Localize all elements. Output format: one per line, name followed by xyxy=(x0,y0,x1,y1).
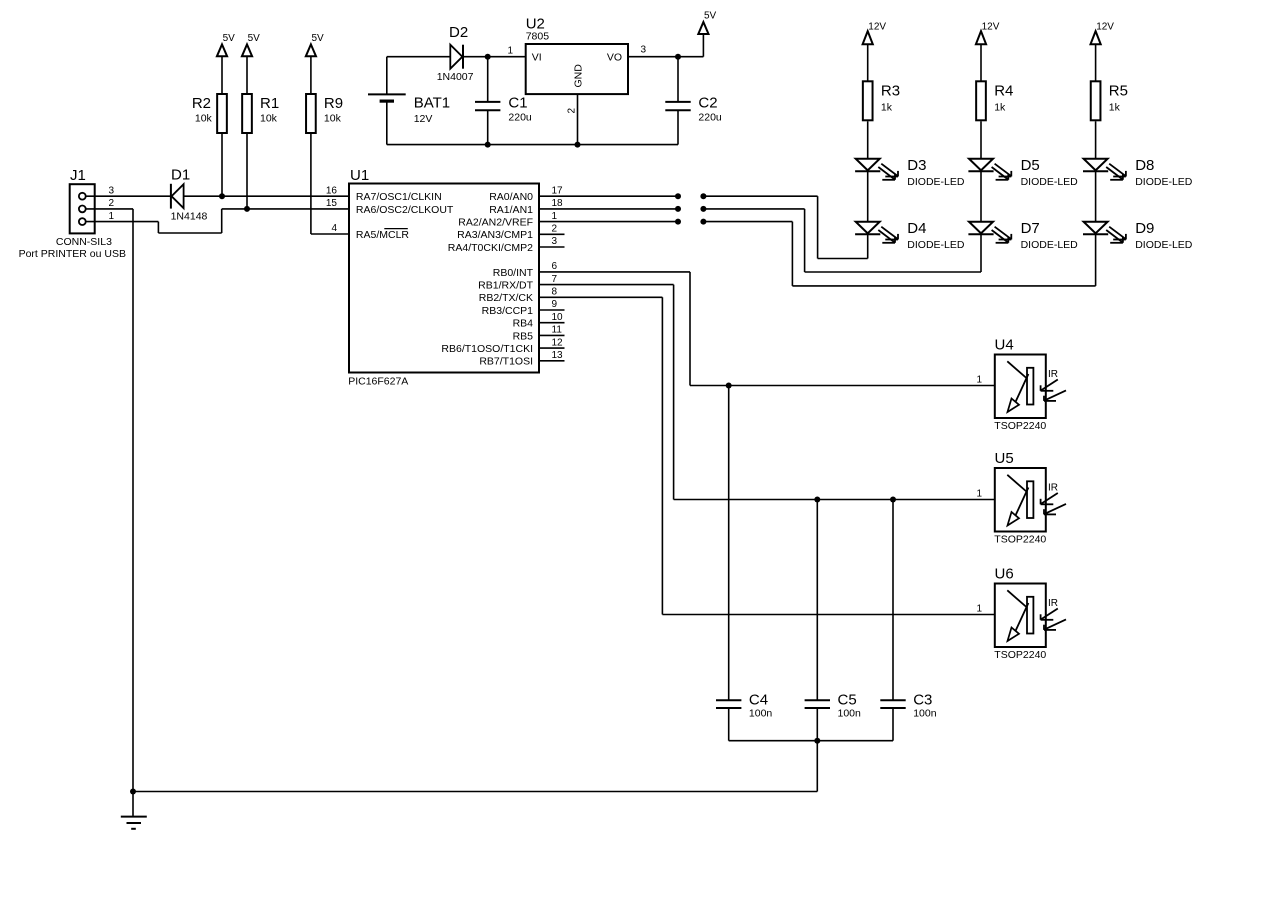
svg-text:TSOP2240: TSOP2240 xyxy=(994,420,1046,432)
svg-text:RA3/AN3/CMP1: RA3/AN3/CMP1 xyxy=(457,229,533,241)
svg-text:C1: C1 xyxy=(508,94,527,111)
power arrow 5V at x=310.9 xyxy=(306,44,316,56)
svg-text:2: 2 xyxy=(108,198,114,209)
capacitor C3 bottom lead xyxy=(892,708,894,741)
svg-text:RB5: RB5 xyxy=(513,330,534,342)
svg-text:DIODE-LED: DIODE-LED xyxy=(1021,176,1079,188)
svg-text:5V: 5V xyxy=(312,33,325,44)
capacitor C1 top lead xyxy=(487,57,489,102)
svg-text:RA1/AN1: RA1/AN1 xyxy=(489,204,533,216)
svg-text:1k: 1k xyxy=(1109,101,1121,113)
junction node C3 top xyxy=(890,497,896,503)
svg-text:R2: R2 xyxy=(192,95,211,112)
ground symbol stem xyxy=(132,792,134,816)
svg-text:10k: 10k xyxy=(195,112,213,124)
svg-text:RB4: RB4 xyxy=(513,318,534,330)
svg-text:3: 3 xyxy=(641,45,647,56)
wire 5V arrow to R1 xyxy=(246,56,248,94)
svg-text:RA6/OSC2/CLKOUT: RA6/OSC2/CLKOUT xyxy=(356,204,454,216)
svg-text:12V: 12V xyxy=(868,22,886,33)
svg-text:RB3/CCP1: RB3/CCP1 xyxy=(482,305,534,317)
U1 unconnected pin stub 10 xyxy=(539,322,565,324)
svg-text:12: 12 xyxy=(552,337,564,348)
wire J1 pin3 through diode D1 to U1 pin 16 xyxy=(86,195,349,197)
svg-text:100n: 100n xyxy=(838,708,862,720)
svg-text:100n: 100n xyxy=(913,708,937,720)
svg-text:D7: D7 xyxy=(1021,220,1040,237)
svg-text:16: 16 xyxy=(326,185,338,196)
svg-text:DIODE-LED: DIODE-LED xyxy=(1135,176,1193,188)
wire pin 7 down xyxy=(673,285,675,500)
wire LED net B to column D5/D7 xyxy=(805,271,981,273)
svg-text:DIODE-LED: DIODE-LED xyxy=(1021,239,1079,251)
wire LED net A to column D3/D4 xyxy=(818,258,868,260)
svg-text:1k: 1k xyxy=(881,101,893,113)
wire R1 to wire15 xyxy=(246,133,248,209)
wire U2 GND pin down xyxy=(577,94,579,145)
capacitor C2 bottom lead xyxy=(677,110,679,144)
wire battery minus down xyxy=(386,101,388,145)
capacitor C1 plates xyxy=(475,101,500,103)
svg-text:12V: 12V xyxy=(414,113,433,125)
svg-text:1N4148: 1N4148 xyxy=(171,211,208,223)
svg-text:DIODE-LED: DIODE-LED xyxy=(907,239,965,251)
svg-text:RA7/OSC1/CLKIN: RA7/OSC1/CLKIN xyxy=(356,191,442,203)
svg-text:U4: U4 xyxy=(995,336,1014,353)
svg-text:U1: U1 xyxy=(350,167,369,184)
svg-text:2: 2 xyxy=(552,224,558,235)
U4 incoming IR arrows xyxy=(1041,380,1058,391)
svg-text:DIODE-LED: DIODE-LED xyxy=(1135,239,1193,251)
svg-text:4: 4 xyxy=(331,223,337,234)
wire pin 8 down xyxy=(661,297,663,614)
power arrow 12V at x=981.0 xyxy=(976,31,986,44)
capacitor bottom rail xyxy=(729,740,893,742)
svg-text:RB0/INT: RB0/INT xyxy=(493,267,534,279)
svg-text:5V: 5V xyxy=(223,33,236,44)
svg-text:100n: 100n xyxy=(749,708,773,720)
wire D3 to D4 xyxy=(867,171,869,234)
capacitor C3 top lead xyxy=(892,500,894,701)
LED D3 xyxy=(856,159,880,171)
junction node R2/wire16 xyxy=(219,193,225,199)
junction node C2 top xyxy=(675,54,681,60)
wire rail down xyxy=(816,741,818,792)
resistor R3 body xyxy=(863,81,873,120)
junction node C1 bottom xyxy=(485,142,491,148)
svg-text:10: 10 xyxy=(552,312,564,323)
wire LED net B down xyxy=(804,209,806,272)
wire R4 to D5 xyxy=(980,121,982,171)
wire U1 pin 7 right xyxy=(539,284,674,286)
svg-text:RA0/AN0: RA0/AN0 xyxy=(489,191,533,203)
ground symbol bars xyxy=(121,816,147,818)
wire LED net A down xyxy=(817,196,819,258)
node start LED net B xyxy=(700,206,706,212)
svg-text:1: 1 xyxy=(976,375,982,386)
wire LED net B horizontal xyxy=(703,208,804,210)
svg-text:9: 9 xyxy=(552,299,558,310)
U5 internal detector symbol xyxy=(1007,475,1027,492)
resistor R4 body xyxy=(976,81,986,120)
U5 incoming IR arrows xyxy=(1041,493,1058,504)
svg-text:R5: R5 xyxy=(1109,82,1128,99)
svg-text:220u: 220u xyxy=(508,112,532,124)
svg-text:DIODE-LED: DIODE-LED xyxy=(907,176,965,188)
wire 5V arrow to R9 xyxy=(310,56,312,94)
svg-text:R3: R3 xyxy=(881,82,900,99)
wire J1 pin1 right xyxy=(86,221,159,223)
regulator U2 box xyxy=(526,44,628,94)
svg-text:7805: 7805 xyxy=(526,30,550,42)
svg-text:Port PRINTER ou USB: Port PRINTER ou USB xyxy=(19,248,126,260)
resistor R1 body xyxy=(242,94,252,133)
wire to U4 input xyxy=(690,385,995,387)
wire 12V to R3 xyxy=(867,44,869,82)
wire to U6 input xyxy=(662,614,994,616)
ground return wire xyxy=(133,791,817,793)
wire D7 cathode down xyxy=(980,234,982,272)
IR receiver U4 TSOP2240 xyxy=(995,355,1046,419)
wire J1 pin2 right xyxy=(86,208,133,210)
power arrow 5V at x=703.4 xyxy=(698,22,708,34)
diode D2 cathode bar xyxy=(462,45,464,69)
J1 pin circle 3 xyxy=(79,193,86,200)
wire pin 6 down xyxy=(689,272,691,386)
svg-text:D5: D5 xyxy=(1021,157,1040,174)
power arrow 5V at x=222.0 xyxy=(217,44,227,56)
svg-text:R4: R4 xyxy=(994,82,1013,99)
wire D4 cathode down xyxy=(867,234,869,258)
capacitor C4 bottom lead xyxy=(728,708,730,741)
svg-text:3: 3 xyxy=(552,236,558,247)
svg-text:IR: IR xyxy=(1048,369,1058,380)
IR receiver U5 TSOP2240 xyxy=(995,468,1046,532)
connector J1 CONN-SIL3 body xyxy=(70,184,95,233)
wire J1 pin2 down to ground rail xyxy=(132,209,134,792)
U4 internal detector symbol xyxy=(1007,361,1027,378)
wire 5V arrow to R2 xyxy=(221,56,223,94)
svg-text:220u: 220u xyxy=(698,112,722,124)
svg-text:R1: R1 xyxy=(260,95,279,112)
svg-text:D3: D3 xyxy=(907,157,926,174)
wire U1 pin 18 to node xyxy=(539,208,678,210)
svg-text:5V: 5V xyxy=(704,11,717,22)
wire D8 to D9 xyxy=(1095,171,1097,234)
svg-text:U6: U6 xyxy=(995,565,1014,582)
wire LED net A horizontal xyxy=(703,195,817,197)
svg-text:1: 1 xyxy=(552,211,558,222)
resistor R9 body xyxy=(306,94,316,133)
svg-text:10k: 10k xyxy=(260,112,278,124)
wire up to 5V arrow xyxy=(702,34,704,57)
node end pin17 xyxy=(675,193,681,199)
svg-text:VI: VI xyxy=(532,51,542,63)
wire 12V to R4 xyxy=(980,44,982,82)
node end pin18 xyxy=(675,206,681,212)
U1 unconnected pin stub 11 xyxy=(539,334,565,336)
J1 pin circle 2 xyxy=(79,206,86,213)
junction node U2 GND bottom xyxy=(575,142,581,148)
U6 incoming IR arrows xyxy=(1041,609,1058,620)
wire R3 to D3 xyxy=(867,121,869,171)
svg-text:IR: IR xyxy=(1048,483,1058,494)
wire U2 VO right xyxy=(628,56,703,58)
battery BAT1 short plate xyxy=(380,99,394,102)
wire J1 pin1 step bottom xyxy=(158,232,221,234)
svg-text:RB7/T1OSI: RB7/T1OSI xyxy=(479,356,533,368)
svg-text:RA5/MCLR: RA5/MCLR xyxy=(356,229,410,241)
svg-text:11: 11 xyxy=(552,325,563,336)
wire D9 cathode down xyxy=(1095,234,1097,286)
wire battery through diode D2 to U2 VI xyxy=(387,56,526,58)
capacitor C3 plates xyxy=(880,699,905,701)
svg-text:IR: IR xyxy=(1048,598,1058,609)
diode D1 cathode bar xyxy=(170,184,172,209)
svg-text:RA2/AN2/VREF: RA2/AN2/VREF xyxy=(458,217,533,229)
junction node R1/wire15 xyxy=(244,206,250,212)
svg-text:1: 1 xyxy=(976,604,982,615)
resistor R2 body xyxy=(217,94,227,133)
svg-text:15: 15 xyxy=(326,198,338,209)
ground rail of regulator section xyxy=(387,144,678,146)
svg-text:D2: D2 xyxy=(449,24,468,41)
svg-text:1: 1 xyxy=(108,211,114,222)
power arrow 12V at x=1095.6 xyxy=(1091,31,1101,44)
U1 MCLR overline xyxy=(384,228,408,230)
power arrow 12V at x=867.7 xyxy=(863,31,873,44)
wire R2 to wire16 xyxy=(221,133,223,196)
wire 12V to R5 xyxy=(1095,44,1097,82)
wire to U5 input xyxy=(674,499,995,501)
svg-text:U5: U5 xyxy=(995,450,1014,467)
svg-text:D4: D4 xyxy=(907,220,926,237)
svg-text:PIC16F627A: PIC16F627A xyxy=(348,376,408,388)
capacitor C2 plates xyxy=(665,101,690,103)
svg-text:D1: D1 xyxy=(171,167,190,184)
U1 unconnected pin stub 12 xyxy=(539,347,565,349)
U6 internal detector symbol xyxy=(1007,590,1027,607)
svg-text:GND: GND xyxy=(573,64,585,88)
svg-text:TSOP2240: TSOP2240 xyxy=(994,534,1046,546)
U1 unconnected pin stub 9 xyxy=(539,309,565,311)
capacitor C4 plates xyxy=(716,699,741,701)
svg-text:12V: 12V xyxy=(1096,22,1114,33)
svg-text:RB1/RX/DT: RB1/RX/DT xyxy=(478,280,533,292)
wire R9 to U1 pin 4 xyxy=(311,233,349,235)
svg-text:12V: 12V xyxy=(982,22,1000,33)
capacitor C5 plates xyxy=(805,699,830,701)
wire J1 pin1 down xyxy=(157,222,159,233)
diode D2 triangle xyxy=(450,45,462,69)
U1 unconnected pin stub 13 xyxy=(539,360,565,362)
battery BAT1 long plate xyxy=(368,93,406,95)
svg-text:RB2/TX/CK: RB2/TX/CK xyxy=(479,292,533,304)
diode D1 triangle xyxy=(172,184,184,208)
junction node C4 top xyxy=(726,383,732,389)
wire LED net C to column D8/D9 xyxy=(792,285,1095,287)
svg-text:10k: 10k xyxy=(324,112,342,124)
junction node rail/ground branch xyxy=(814,738,820,744)
svg-text:BAT1: BAT1 xyxy=(414,94,450,111)
LED D5 xyxy=(969,159,993,171)
svg-text:TSOP2240: TSOP2240 xyxy=(994,649,1046,661)
wire J1 pin1 step up xyxy=(221,209,223,233)
node start LED net C xyxy=(700,219,706,225)
svg-text:8: 8 xyxy=(552,287,558,298)
svg-text:D8: D8 xyxy=(1135,157,1154,174)
svg-text:7: 7 xyxy=(552,274,558,285)
U1 unconnected pin stub 3 xyxy=(539,246,565,248)
svg-text:R9: R9 xyxy=(324,95,343,112)
junction node ground xyxy=(130,789,136,795)
svg-text:1: 1 xyxy=(976,489,982,500)
capacitor C5 top lead xyxy=(816,500,818,701)
LED D7 xyxy=(969,222,993,234)
wire U1 pin 1 to node xyxy=(539,221,678,223)
J1 pin circle 1 xyxy=(79,218,86,225)
svg-text:1N4007: 1N4007 xyxy=(437,71,474,83)
wire to U1 pin 15 xyxy=(222,208,349,210)
svg-text:5V: 5V xyxy=(248,33,261,44)
node start LED net A xyxy=(700,193,706,199)
svg-text:C5: C5 xyxy=(838,692,857,709)
wire R9 down across wires xyxy=(310,133,312,234)
microcontroller U1 box xyxy=(349,184,539,373)
svg-text:6: 6 xyxy=(552,261,558,272)
LED D4 xyxy=(856,222,880,234)
svg-text:3: 3 xyxy=(108,185,114,196)
svg-text:C2: C2 xyxy=(698,94,717,111)
svg-text:17: 17 xyxy=(552,185,564,196)
U1 unconnected pin stub 2 xyxy=(539,233,565,235)
svg-text:RA4/T0CKI/CMP2: RA4/T0CKI/CMP2 xyxy=(448,242,533,254)
svg-text:18: 18 xyxy=(552,198,564,209)
svg-text:C4: C4 xyxy=(749,692,768,709)
capacitor C1 bottom lead xyxy=(487,110,489,144)
svg-text:CONN-SIL3: CONN-SIL3 xyxy=(56,236,112,248)
node end pin1 xyxy=(675,219,681,225)
LED D9 xyxy=(1084,222,1108,234)
IR receiver U6 TSOP2240 xyxy=(995,584,1046,648)
wire U1 pin 17 to node xyxy=(539,195,678,197)
junction node C1 top xyxy=(485,54,491,60)
capacitor C5 bottom lead xyxy=(816,708,818,741)
svg-text:1k: 1k xyxy=(994,101,1006,113)
wire LED net C down xyxy=(791,222,793,286)
LED D8 xyxy=(1084,159,1108,171)
svg-text:RB6/T1OSO/T1CKI: RB6/T1OSO/T1CKI xyxy=(441,343,533,355)
wire R5 to D8 xyxy=(1095,121,1097,171)
capacitor C2 top lead xyxy=(677,57,679,102)
svg-text:C3: C3 xyxy=(913,692,932,709)
wire U1 pin 6 right xyxy=(539,271,690,273)
wire LED net C horizontal xyxy=(703,221,792,223)
power arrow 5V at x=247.0 xyxy=(242,44,252,56)
svg-text:1: 1 xyxy=(507,46,513,57)
svg-text:D9: D9 xyxy=(1135,220,1154,237)
wire battery plus up xyxy=(386,57,388,95)
wire U1 pin 8 right xyxy=(539,296,662,298)
junction node C5 top xyxy=(814,497,820,503)
svg-text:VO: VO xyxy=(607,51,622,63)
svg-text:2: 2 xyxy=(567,108,578,114)
svg-text:J1: J1 xyxy=(70,167,86,184)
resistor R5 body xyxy=(1091,81,1101,120)
svg-text:13: 13 xyxy=(552,350,564,361)
wire D5 to D7 xyxy=(980,171,982,234)
capacitor C4 top lead xyxy=(728,386,730,701)
